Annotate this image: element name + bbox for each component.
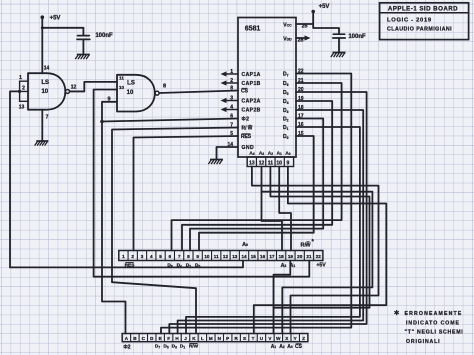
wire U1b pin8 output to SID CS pin8: [159, 91, 238, 94]
svg-text:M: M: [209, 336, 213, 341]
svg-text:7: 7: [230, 122, 233, 128]
svg-text:8: 8: [163, 84, 166, 90]
ground G3: [208, 160, 223, 165]
wire net RES: SID pin5 to upper connector pin 2: [134, 136, 239, 251]
svg-text:22: 22: [316, 254, 322, 259]
svg-text:D6: D6: [167, 263, 172, 269]
svg-text:17: 17: [269, 254, 275, 259]
svg-text:1: 1: [19, 75, 22, 81]
svg-text:P: P: [226, 336, 229, 341]
svg-text:14: 14: [241, 254, 247, 259]
svg-text:R/: R/: [242, 126, 248, 132]
svg-text:8: 8: [230, 85, 233, 91]
node +5V top-left: [41, 15, 45, 19]
op-amp U1a 74LS10 NAND gate 1: [28, 73, 65, 110]
svg-text:D3: D3: [172, 344, 177, 350]
wire net D7: [161, 74, 351, 334]
svg-text:ORIGINALI: ORIGINALI: [406, 339, 440, 345]
wire net A4: SID pin13 to connector X: [252, 167, 379, 334]
svg-text:Φ2: Φ2: [242, 117, 250, 123]
svg-text:W: W: [248, 126, 253, 132]
wire net D6: [172, 83, 342, 251]
wire U1a pin14 to +5V: [41, 18, 43, 74]
wire net D0: [199, 136, 314, 251]
svg-text:W: W: [276, 336, 281, 341]
wire U1a inputs to net A0 bus: [10, 91, 20, 267]
svg-text:20: 20: [297, 254, 303, 259]
svg-text:11: 11: [214, 254, 219, 259]
svg-text:2: 2: [131, 254, 134, 259]
svg-text:21: 21: [306, 254, 312, 259]
svg-text:19: 19: [288, 254, 294, 259]
U1a input stubs pins 1,2,13: [20, 80, 28, 82]
capacitor C2 100nF: [333, 33, 344, 35]
svg-text:APPLE-1 SID BOARD: APPLE-1 SID BOARD: [388, 5, 458, 12]
svg-text:16: 16: [260, 254, 266, 259]
svg-text:A3: A3: [259, 150, 264, 156]
svg-text:10: 10: [127, 90, 134, 96]
svg-text:E: E: [159, 336, 162, 341]
svg-text:Y: Y: [294, 336, 297, 341]
capacitor C1 100nF: [78, 35, 90, 37]
svg-text:100nF: 100nF: [348, 34, 366, 40]
svg-text:2: 2: [22, 86, 25, 92]
svg-text:A4: A4: [249, 150, 254, 156]
svg-text:F: F: [167, 336, 170, 341]
ground G4: [331, 53, 346, 58]
svg-text:CS: CS: [295, 344, 303, 350]
wire +5V to SID Vcc: [312, 12, 314, 25]
wire net R/W-K: SID pin7 to lower connector K: [112, 128, 238, 334]
ground G1: [75, 55, 90, 60]
wire net PHI2: U1b pin9 down: [102, 102, 126, 334]
svg-text:LS: LS: [127, 80, 135, 86]
svg-text:4: 4: [150, 254, 153, 259]
wire +5V to capacitor C1: [42, 27, 83, 29]
svg-text:+5V: +5V: [50, 16, 61, 22]
svg-text:+5V: +5V: [319, 4, 330, 10]
svg-text:6581: 6581: [245, 26, 261, 33]
svg-text:1: 1: [122, 254, 125, 259]
svg-text:D4: D4: [177, 263, 182, 269]
svg-text:11: 11: [119, 76, 124, 81]
wire net A1: SID pin10 to upper connector pin 19: [279, 167, 291, 251]
svg-text:LS: LS: [41, 80, 49, 86]
svg-text:7: 7: [46, 115, 49, 121]
wire PHI2 branch to SID pin6: [102, 119, 238, 122]
svg-text:D0: D0: [195, 263, 200, 269]
wire net A0: SID pin9 to connector T: [254, 167, 386, 334]
svg-text:9: 9: [196, 254, 199, 259]
svg-text:CAP2A: CAP2A: [242, 99, 261, 105]
junction U1a inputs: [18, 90, 21, 93]
svg-text:6: 6: [230, 113, 233, 119]
svg-text:S: S: [243, 336, 246, 341]
svg-text:13: 13: [19, 105, 25, 111]
connector J1 pins 1-22: [119, 251, 323, 261]
svg-text:8: 8: [187, 254, 190, 259]
svg-text:3: 3: [141, 254, 144, 259]
svg-text:D5: D5: [163, 344, 168, 350]
svg-text:CAP1B: CAP1B: [242, 81, 261, 87]
svg-text:7: 7: [178, 254, 181, 259]
svg-text:J: J: [184, 336, 187, 341]
svg-text:CAP2B: CAP2B: [242, 108, 261, 114]
svg-text:A0: A0: [285, 150, 290, 156]
svg-text:W: W: [305, 243, 311, 249]
svg-text:15: 15: [251, 254, 257, 259]
svg-text:RES: RES: [125, 263, 136, 269]
svg-text:10: 10: [41, 89, 48, 95]
note erroneamente: [396, 310, 398, 315]
op-amp U1b 74LS10 NAND gate 2: [117, 75, 155, 112]
svg-text:Z: Z: [302, 336, 305, 341]
wire net A0 bus to upper connector pin 14: [10, 261, 243, 268]
svg-text:13: 13: [232, 254, 238, 259]
connector J2 pins A-Z: [122, 334, 308, 342]
wire net D4: [182, 101, 332, 251]
svg-text:A2: A2: [268, 150, 273, 156]
wire net D3: [178, 110, 364, 334]
SID address pin boxes 13,12,11,10,9: [247, 157, 293, 167]
svg-text:5: 5: [230, 131, 233, 137]
svg-text:10: 10: [204, 254, 210, 259]
junction PHI2 branch: [100, 120, 104, 124]
node +5V top-right: [311, 10, 315, 14]
IC U2 6581 SID: [238, 18, 296, 158]
svg-text:INDICATO COME: INDICATO COME: [406, 320, 460, 326]
svg-text:"T" NEGLI SCHEMI: "T" NEGLI SCHEMI: [405, 330, 464, 336]
ground G2: [35, 141, 49, 146]
wire net D2: [190, 119, 323, 251]
svg-text:CS: CS: [241, 89, 249, 95]
junction +5V branch: [41, 26, 44, 29]
svg-text:RES: RES: [241, 134, 252, 140]
wire net A1 to lower connector V: [274, 261, 291, 334]
svg-text:R/W: R/W: [189, 344, 199, 350]
svg-text:Φ2: Φ2: [123, 345, 130, 351]
svg-text:T: T: [252, 336, 255, 341]
svg-text:18: 18: [279, 254, 285, 259]
svg-text:L: L: [201, 336, 204, 341]
svg-text:10: 10: [119, 85, 125, 90]
svg-text:14: 14: [44, 66, 50, 72]
svg-text:A1: A1: [277, 150, 282, 156]
svg-text:LOGIC - 2019: LOGIC - 2019: [387, 18, 432, 24]
svg-text:100nF: 100nF: [95, 33, 113, 39]
wire net A3 branch to connector W: [262, 192, 373, 334]
wire net A2: SID pin11 to connector V branch: [270, 167, 369, 308]
svg-text:D1: D1: [180, 344, 185, 350]
wire net D5: [169, 92, 366, 334]
wire net R/W-21: U1b pin10 to upper connector pin 21: [94, 90, 310, 277]
svg-text:D7: D7: [155, 344, 160, 350]
svg-text:CAP1A: CAP1A: [242, 72, 261, 78]
wire net A3: SID pin12 to upper connector pin 18: [262, 167, 283, 251]
svg-text:ERRONEAMENTE: ERRONEAMENTE: [405, 311, 463, 317]
wire U1a pin7 to ground: [41, 110, 43, 141]
svg-text:5: 5: [159, 254, 162, 259]
wire U1a pin12 to U1b pin11: [70, 82, 117, 92]
wire SID pin14 GND to ground: [217, 147, 239, 160]
wire net D1: [186, 127, 360, 334]
svg-text:12: 12: [71, 85, 77, 91]
svg-text:CLAUDIO PARMIGIANI: CLAUDIO PARMIGIANI: [387, 26, 452, 32]
title box: [380, 3, 469, 40]
svg-text:GND: GND: [242, 145, 255, 151]
svg-text:+5V: +5V: [316, 263, 326, 269]
svg-text:6: 6: [169, 254, 172, 259]
svg-text:12: 12: [223, 254, 229, 259]
svg-text:D2: D2: [186, 263, 191, 269]
